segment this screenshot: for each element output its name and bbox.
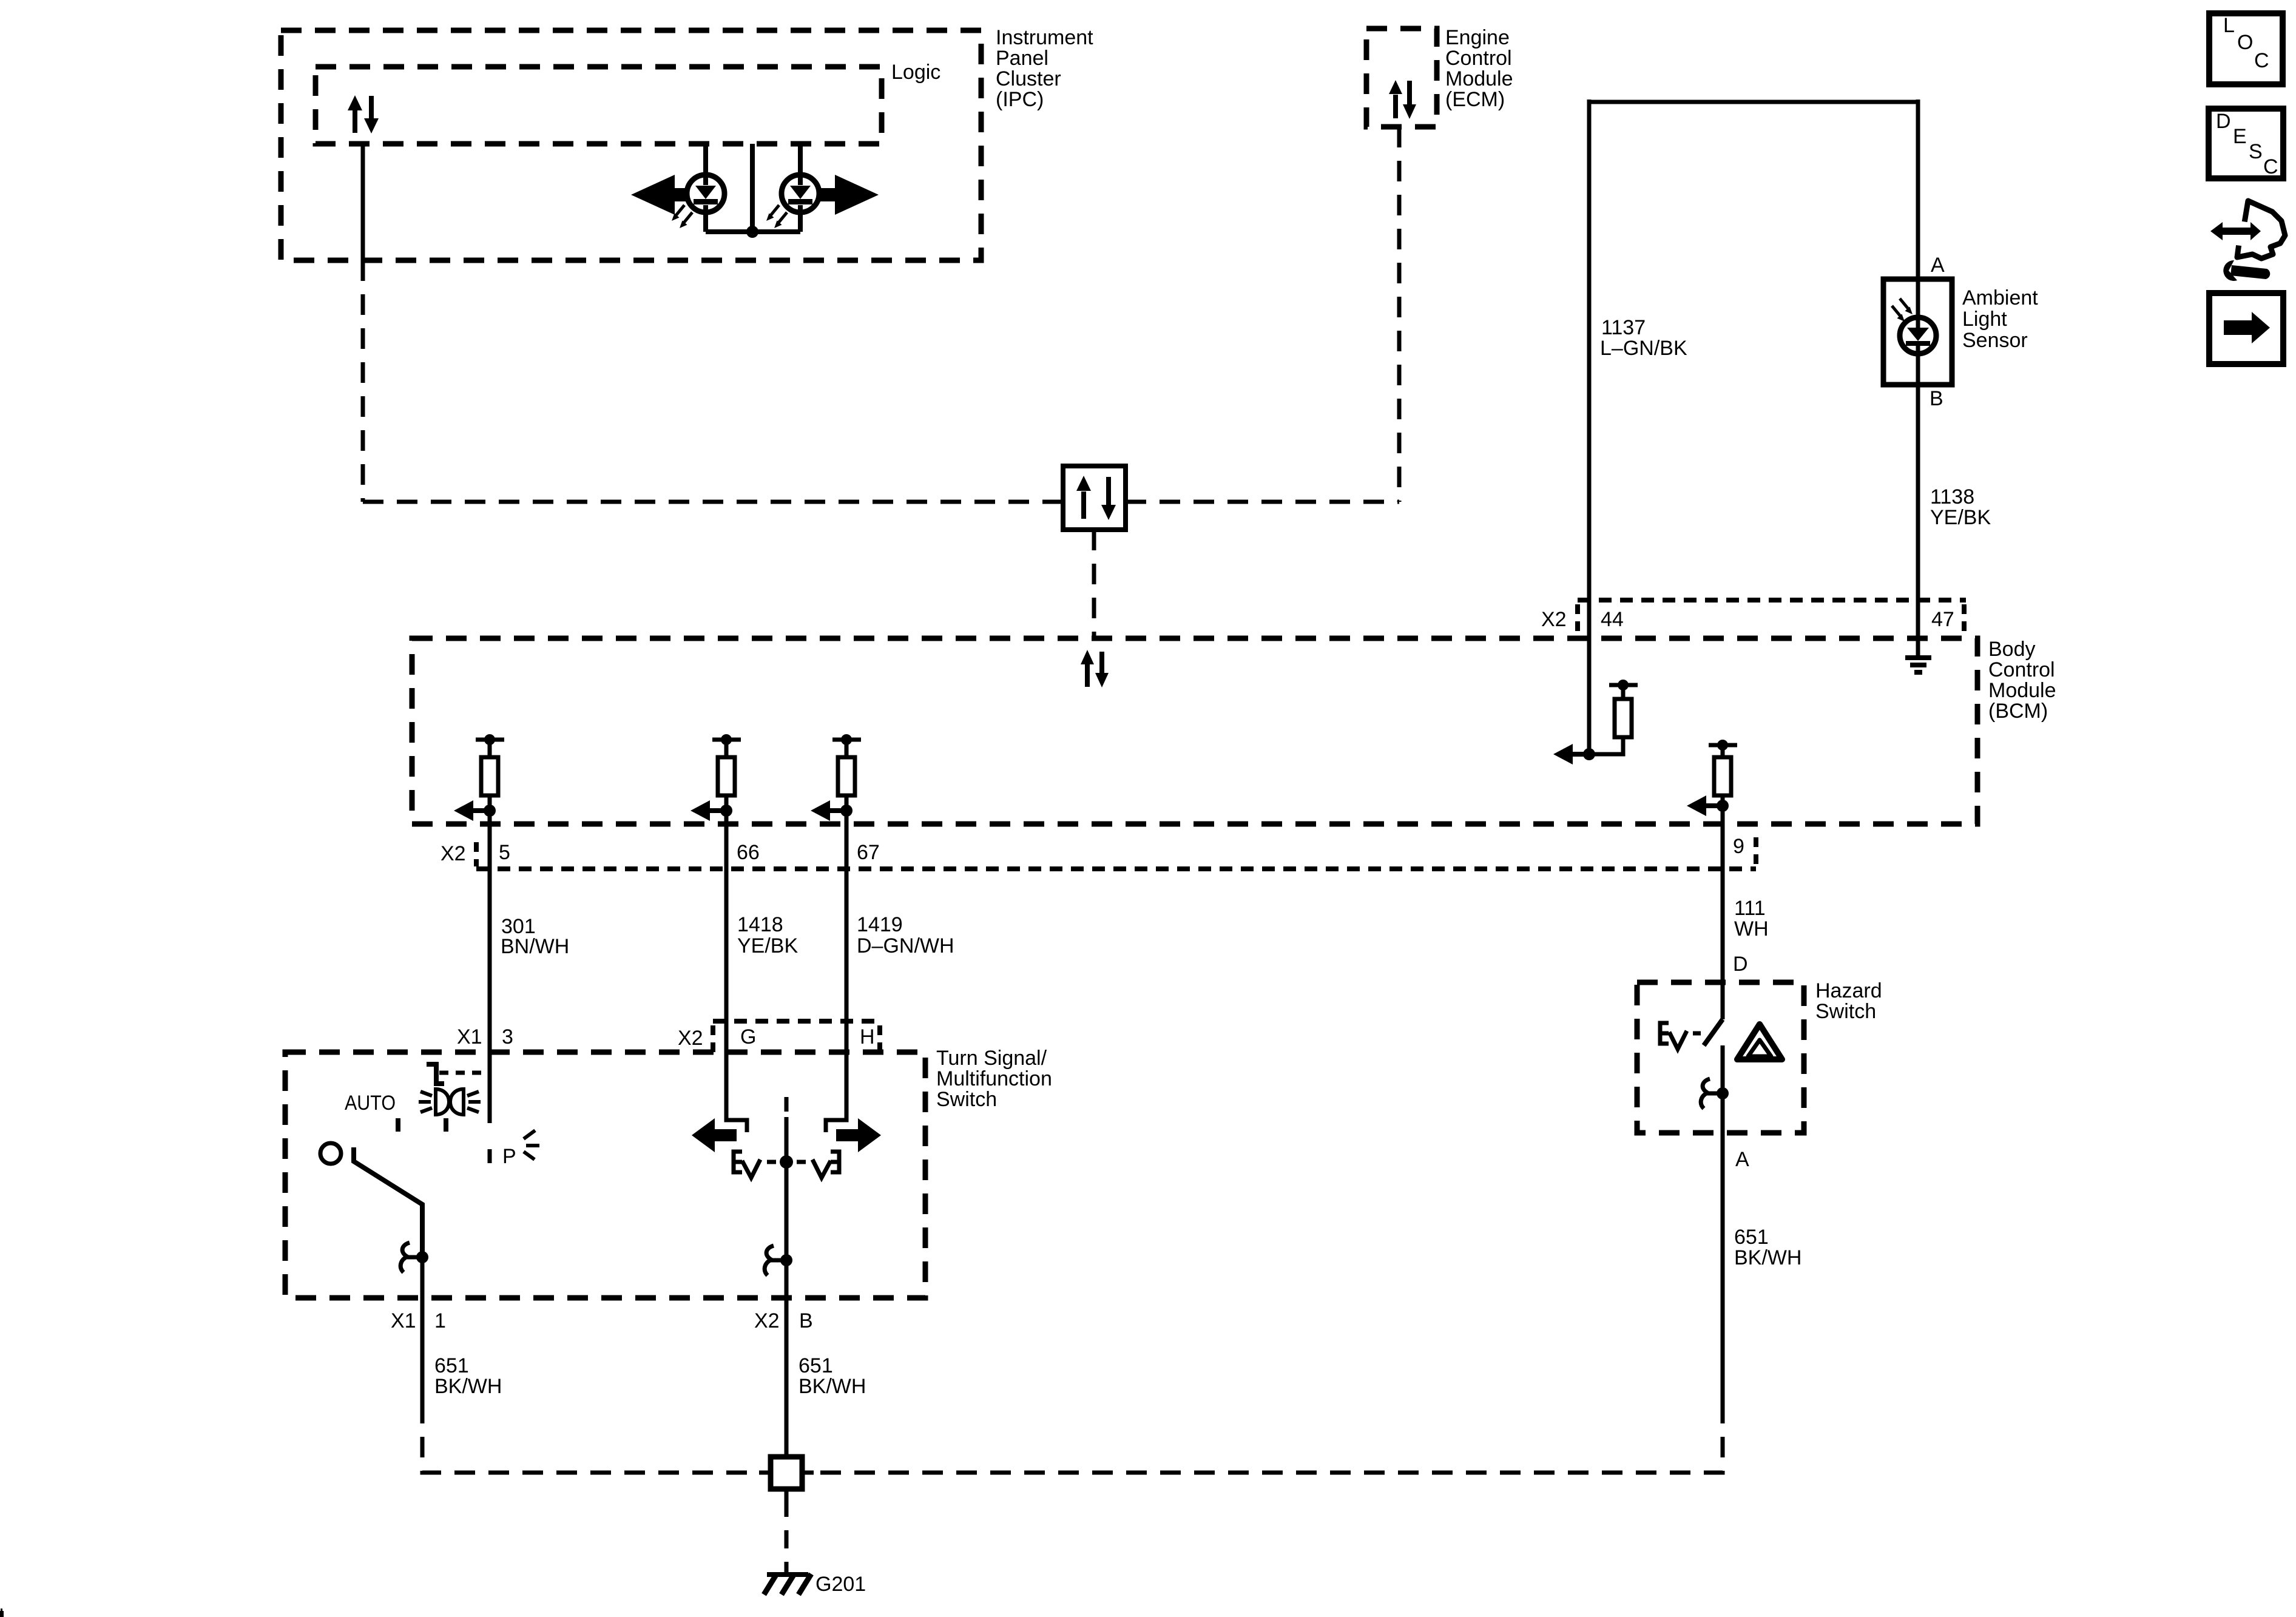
- svg-text:Turn Signal/: Turn Signal/: [936, 1047, 1047, 1070]
- label: connector X2 (bottom strip): [441, 842, 466, 865]
- svg-text:651: 651: [1734, 1226, 1769, 1249]
- node: LED cathode junction: [746, 226, 758, 238]
- label: circuit 1137 L-GN/BK: [1600, 316, 1687, 360]
- svg-text:BK/WH: BK/WH: [434, 1375, 502, 1398]
- svg-text:Control: Control: [1988, 658, 2055, 681]
- latch symbol (hazard switch detent): [1701, 1079, 1723, 1109]
- wire: turn signal common down to pin B: [785, 1117, 789, 1457]
- node: junction pin 9 wire / R2: [1717, 800, 1729, 812]
- pin 44 label: [1601, 608, 1624, 631]
- svg-text:X2: X2: [441, 842, 466, 865]
- lightning arrows of LED D1 (emitting): [672, 205, 692, 228]
- wire: serial data dashed ECM down: [1397, 127, 1402, 502]
- svg-text:E: E: [2233, 125, 2247, 148]
- wire: LED common center wire: [750, 144, 755, 232]
- wire: 651 BK/WH dashed from hazard to splice: [814, 1403, 1723, 1473]
- svg-text:Multifunction: Multifunction: [936, 1067, 1052, 1090]
- svg-text:C: C: [2263, 155, 2278, 178]
- label: circuit 1138 YE/BK: [1930, 485, 1991, 529]
- svg-text:X2: X2: [678, 1027, 703, 1050]
- node: junction pin 5 wire / R3: [484, 805, 496, 817]
- svg-text:X1: X1: [457, 1025, 482, 1048]
- pin A label (hazard switch): [1735, 1148, 1749, 1171]
- svg-text:Hazard: Hazard: [1815, 979, 1882, 1002]
- svg-text:X2: X2: [1541, 608, 1567, 631]
- wire: serial data dashed horizontal splice box to ECM: [1126, 500, 1399, 504]
- mechanical link dashes between actuators: [767, 1160, 806, 1164]
- wire: IPC logic output (solid inside IPC): [361, 144, 365, 260]
- legend icon: arrow box: [2209, 293, 2283, 364]
- pin 67 label: [857, 841, 880, 864]
- label: Logic: [891, 61, 940, 84]
- svg-text:BK/WH: BK/WH: [1734, 1246, 1801, 1269]
- headlamp symbol (lamps-on position): [419, 1089, 481, 1115]
- svg-text:WH: WH: [1734, 917, 1769, 940]
- wire: 651 BK/WH dashed off-page left branch to splice: [422, 1403, 759, 1473]
- label: circuit 301 BN/WH: [501, 915, 569, 958]
- svg-text:Light: Light: [1962, 308, 2007, 331]
- svg-text:D: D: [2216, 110, 2231, 133]
- svg-text:L–GN/BK: L–GN/BK: [1600, 337, 1687, 360]
- svg-text:Instrument: Instrument: [996, 26, 1093, 49]
- latch symbol (headlamp switch detent): [400, 1243, 422, 1272]
- resistor R5 (BCM pull-up on pin 67): [832, 734, 861, 811]
- wire: serial data dashed from IPC down: [361, 260, 365, 502]
- lightning arrows of LED D2 (emitting): [766, 205, 787, 228]
- label: Hazard Switch: [1815, 979, 1882, 1023]
- svg-text:(BCM): (BCM): [1988, 700, 2048, 723]
- connector strip X2 G/H (turn signal switch) dotted: [713, 1021, 880, 1052]
- wire: 1138 YE/BK vertical to BCM pin 47: [1916, 385, 1920, 656]
- pin 47 label: [1931, 608, 1954, 631]
- lightning arrows into photodiode D3 (receiving): [1892, 299, 1913, 322]
- node: latch junction on common wire: [780, 1254, 792, 1266]
- svg-text:BN/WH: BN/WH: [501, 935, 569, 958]
- svg-text:YE/BK: YE/BK: [737, 934, 798, 957]
- svg-text:P: P: [502, 1145, 516, 1168]
- page artifact mark bottom-left: [0, 1609, 4, 1617]
- actuator symbol E-v (hazard switch): [1660, 1023, 1687, 1049]
- pin 66 label: [737, 841, 760, 864]
- wire: 301 BN/WH from BCM pin 5 to headlamp switch: [488, 811, 492, 1163]
- node: turn signal common pole junction: [780, 1155, 793, 1169]
- node: junction pin 66 wire / R4: [720, 805, 732, 817]
- svg-text:G201: G201: [815, 1573, 866, 1596]
- svg-text:H: H: [860, 1025, 875, 1048]
- connector X1 pin 1 labels: [391, 1309, 446, 1332]
- svg-text:B: B: [799, 1309, 813, 1332]
- svg-text:B: B: [1930, 387, 1943, 410]
- svg-text:1138: 1138: [1930, 485, 1974, 508]
- svg-text:Module: Module: [1445, 67, 1513, 90]
- svg-text:L: L: [2223, 14, 2235, 37]
- label: AUTO position (headlamp switch): [345, 1092, 396, 1115]
- legend icon: DESC box: [2209, 109, 2283, 178]
- svg-text:Control: Control: [1445, 47, 1512, 70]
- parking lamp symbol P with rays: [502, 1130, 539, 1168]
- pin B label (ambient light sensor): [1930, 387, 1943, 410]
- switch blade SW1 (headlamp switch): [354, 1147, 422, 1257]
- label: connector X2 (turn signal switch): [678, 1027, 703, 1050]
- wire: dashed from splice box down to ground: [785, 1499, 789, 1573]
- svg-text:YE/BK: YE/BK: [1930, 506, 1991, 529]
- svg-text:Ambient: Ambient: [1962, 286, 2038, 309]
- serial data symbol U4 (inside BCM, below top edge): [1081, 650, 1109, 687]
- serial data splice box: [1063, 466, 1126, 530]
- module box: Body Control Module (BCM) dashed box: [412, 638, 1977, 824]
- label: circuit 651 BK/WH (right): [1734, 1226, 1801, 1269]
- svg-text:AUTO: AUTO: [345, 1092, 396, 1115]
- svg-text:1419: 1419: [857, 913, 903, 936]
- module box: Logic dashed box inside IPC: [316, 67, 882, 144]
- node: headlamp switch common junction: [416, 1251, 428, 1263]
- svg-text:D–GN/WH: D–GN/WH: [857, 934, 954, 957]
- pin H label: [860, 1025, 875, 1048]
- wire: 1137 L-GN/BK top horizontal: [1589, 100, 1918, 104]
- dashed position-box ticks below headlamp symbol: [398, 1118, 446, 1132]
- label: connector X2 (top): [1541, 608, 1567, 631]
- svg-text:Body: Body: [1988, 638, 2036, 661]
- node: junction pin 44 wire / R1: [1583, 748, 1595, 760]
- splice junction box S201: [759, 1457, 814, 1499]
- wire: 1137 L-GN/BK vertical to BCM pin 44: [1587, 100, 1592, 754]
- resistor R2 (BCM pull-up on pin 9): [1709, 740, 1737, 806]
- label: circuit 651 BK/WH (left): [434, 1354, 502, 1398]
- svg-text:3: 3: [502, 1025, 513, 1048]
- latch symbol (turn signal switch detent): [765, 1246, 786, 1275]
- actuator symbol E-v (left, turn signal switch): [734, 1152, 760, 1178]
- svg-text:1418: 1418: [737, 913, 783, 936]
- pin 9 label: [1733, 835, 1744, 858]
- connector X2 pin B labels (turn signal switch): [754, 1309, 813, 1332]
- legend icon: connector repair (double arrow, terminal, wrench): [2210, 201, 2285, 281]
- contact O (headlamp switch OFF position): [320, 1143, 341, 1164]
- label: circuit 651 BK/WH (middle): [799, 1354, 866, 1398]
- label: Ambient Light Sensor: [1962, 286, 2038, 352]
- svg-text:O: O: [2237, 31, 2253, 54]
- svg-text:Engine: Engine: [1445, 26, 1510, 49]
- wire: hazard switch lower contact to pin A: [1721, 1045, 1725, 1403]
- svg-text:G: G: [740, 1025, 756, 1048]
- arrow: left turn direction arrow in IPC: [631, 175, 686, 215]
- svg-text:47: 47: [1931, 608, 1954, 631]
- svg-text:44: 44: [1601, 608, 1624, 631]
- svg-text:651: 651: [434, 1354, 469, 1377]
- wire: headlamp switch common to pin X1-1: [420, 1257, 425, 1403]
- arrow: BCM input signal arrow (pin 9): [1687, 795, 1723, 816]
- label: Instrument Panel Cluster (IPC): [996, 26, 1093, 111]
- module box: Hazard Switch dashed box: [1637, 982, 1804, 1133]
- wire: LED cathode bus: [706, 229, 800, 234]
- connector strip X2 (BCM pins 44/47) dotted: [1578, 600, 1966, 635]
- arrow: BCM input signal arrow (pin 44): [1553, 744, 1589, 765]
- arrow: BCM input signal arrow (pin 67): [811, 800, 846, 821]
- svg-text:BK/WH: BK/WH: [799, 1375, 866, 1398]
- svg-text:X1: X1: [391, 1309, 416, 1332]
- svg-text:X2: X2: [754, 1309, 780, 1332]
- svg-text:1137: 1137: [1601, 316, 1646, 339]
- svg-text:1: 1: [434, 1309, 446, 1332]
- node: junction pin 67 wire / R5: [840, 805, 853, 817]
- wire: 111 WH from BCM pin 9 to hazard switch: [1721, 806, 1725, 1019]
- svg-text:Sensor: Sensor: [1962, 329, 2028, 352]
- svg-text:5: 5: [499, 841, 510, 864]
- svg-text:A: A: [1735, 1148, 1749, 1171]
- resistor R4 (BCM pull-up on pin 66): [712, 734, 741, 811]
- label: circuit 1419 D-GN/WH: [857, 913, 954, 957]
- pin 5 label: [499, 841, 510, 864]
- arrow: left turn annotation arrow (turn signal switch): [692, 1118, 737, 1152]
- svg-text:Cluster: Cluster: [996, 67, 1061, 90]
- svg-text:66: 66: [737, 841, 760, 864]
- svg-text:C: C: [2254, 49, 2269, 72]
- label: Body Control Module (BCM): [1988, 638, 2056, 723]
- connector X1 pin 3 labels (turn signal switch): [457, 1025, 513, 1048]
- mechanical link dash (hazard actuator to blade): [1693, 1031, 1701, 1036]
- svg-text:Switch: Switch: [1815, 1000, 1876, 1023]
- svg-text:A: A: [1931, 254, 1945, 277]
- svg-text:111: 111: [1734, 897, 1766, 920]
- wire: 1419 D-GN/WH from BCM pin 67 to turn signal switch (H contact hook): [826, 811, 846, 1132]
- resistor R1 (BCM pull-up on pin 44): [1589, 680, 1638, 754]
- arrow: BCM input signal arrow (pin 66): [690, 800, 726, 821]
- module box: Turn Signal/Multifunction Switch dashed box: [285, 1052, 925, 1298]
- wire: 1418 YE/BK from BCM pin 66 to turn signal switch (G contact hook): [726, 811, 747, 1132]
- pin G label: [740, 1025, 756, 1048]
- svg-text:Switch: Switch: [936, 1088, 997, 1111]
- wire: movable pole dashed (turn signal switch): [785, 1097, 789, 1114]
- actuator symbol v-E (right, turn signal switch): [812, 1152, 839, 1178]
- node: hazard latch junction: [1717, 1087, 1729, 1099]
- wire: serial data dashed horizontal IPC to splice box: [363, 500, 1063, 504]
- LED D1: left turn indicator in IPC: [687, 144, 724, 232]
- photodiode D3 inside sensor: [1900, 279, 1936, 385]
- svg-text:Panel: Panel: [996, 47, 1048, 70]
- arrow: right turn direction arrow in IPC: [820, 175, 879, 215]
- label: Engine Control Module (ECM): [1445, 26, 1513, 111]
- LED D2: right turn indicator in IPC: [782, 144, 819, 232]
- hazard warning triangle symbol: [1737, 1024, 1782, 1059]
- legend icon: LOC box: [2209, 13, 2283, 84]
- svg-text:S: S: [2249, 140, 2263, 163]
- arrow: right turn annotation arrow (turn signal switch): [836, 1118, 881, 1152]
- ground symbol G201: [764, 1574, 811, 1595]
- switch blade SW2 (hazard switch): [1704, 1019, 1723, 1045]
- svg-text:D: D: [1733, 953, 1748, 976]
- label: G201: [815, 1573, 866, 1596]
- connector strip X2 (BCM bottom pins 5/66/67/9) dotted: [476, 837, 1756, 869]
- component box: Ambient Light Sensor: [1883, 279, 1952, 385]
- arrow: BCM input signal arrow (pin 5): [454, 800, 490, 821]
- label: circuit 111 WH: [1734, 897, 1769, 940]
- wire: sensor feed vertical to pin A: [1916, 100, 1920, 279]
- svg-text:(ECM): (ECM): [1445, 88, 1505, 111]
- label: Turn Signal/Multifunction Switch: [936, 1047, 1052, 1111]
- serial data symbol U1 (IPC logic, up/down arrows): [348, 95, 379, 133]
- wire: serial data dashed splice box to BCM: [1092, 530, 1096, 638]
- svg-text:Logic: Logic: [891, 61, 940, 84]
- label: circuit 1418 YE/BK: [737, 913, 798, 957]
- resistor R3 (BCM pull-up on pin 5): [476, 734, 504, 811]
- svg-text:(IPC): (IPC): [996, 88, 1044, 111]
- module box: Instrument Panel Cluster (IPC) outer dashed box: [281, 30, 981, 260]
- headlamp switch AUTO contact bracket: [427, 1064, 444, 1084]
- pin A label (ambient light sensor): [1931, 254, 1945, 277]
- ground symbol inside BCM (pin 47): [1905, 658, 1931, 672]
- svg-text:651: 651: [799, 1354, 833, 1377]
- svg-text:Module: Module: [1988, 679, 2056, 702]
- serial data symbol U3 (inside splice box): [1076, 476, 1116, 520]
- pin D label (hazard switch): [1733, 953, 1748, 976]
- module box: Engine Control Module (ECM) dashed box: [1366, 29, 1437, 127]
- serial data symbol U2 (inside ECM): [1389, 80, 1416, 119]
- svg-text:9: 9: [1733, 835, 1744, 858]
- dashed link from AUTO contact to wire 301: [439, 1071, 489, 1075]
- svg-text:67: 67: [857, 841, 880, 864]
